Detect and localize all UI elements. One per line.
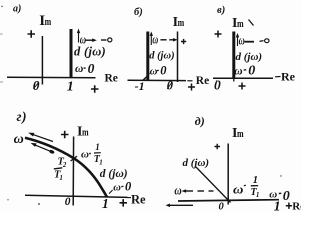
- direction arrow above curve (panel g): [28, 133, 53, 142]
- svg-text:0: 0: [167, 79, 174, 93]
- svg-text:д): д): [195, 114, 205, 128]
- tick label -1 (panel b): [135, 79, 145, 93]
- svg-text:Re: Re: [196, 75, 209, 87]
- Im axis (panel d): [227, 144, 229, 205]
- svg-text:Re: Re: [131, 192, 146, 206]
- slash through 0 (panel b): [167, 82, 172, 89]
- origin label 0 (panel a): [33, 78, 40, 93]
- origin label 0 (panel d): [219, 202, 225, 213]
- plus lower (panel v): [239, 83, 246, 90]
- Re axis (panel b): [128, 79, 187, 81]
- tick label 1 (panel g): [102, 196, 109, 211]
- svg-text:2: 2: [62, 161, 67, 169]
- svg-text:0: 0: [88, 61, 95, 76]
- svg-text:б): б): [134, 7, 143, 18]
- axis label Im (panel a): [39, 13, 51, 29]
- omega with dashed arrow (panel d): [174, 183, 213, 197]
- svg-text:ω: ω: [239, 34, 245, 48]
- svg-text:Re: Re: [105, 73, 118, 85]
- svg-text:ω: ω: [152, 33, 158, 47]
- axis label Im (panel b): [173, 15, 185, 30]
- omega symbol at curve end (panel g): [14, 132, 24, 147]
- direction up-arrow (panel b): [150, 32, 153, 46]
- svg-text:0: 0: [248, 64, 255, 79]
- svg-text:m: m: [237, 128, 244, 141]
- axis end dash (panel v): [275, 76, 281, 78]
- tick at Im-axis crossing (panel g): [71, 156, 77, 161]
- svg-text:ω: ω: [75, 63, 83, 75]
- plus upper-left (panel d): [215, 144, 221, 150]
- tick label 1 (panel d): [274, 200, 281, 215]
- hook at line foot (panel b): [143, 77, 148, 81]
- svg-text:ω: ω: [14, 132, 24, 147]
- svg-text:ω: ω: [81, 149, 89, 161]
- leader to w=0 (panel g): [109, 190, 113, 194]
- plus upper-left (panel v): [215, 31, 222, 38]
- panel a label: [13, 4, 21, 15]
- svg-text:d (jω): d (jω): [236, 51, 263, 63]
- svg-text:1: 1: [99, 159, 103, 167]
- svg-text:ω: ω: [269, 188, 277, 200]
- label d(jw) (panel a): [74, 45, 106, 59]
- label w=1/T1 (panel d): [233, 175, 259, 199]
- hodograph curve (panel g): [25, 138, 107, 198]
- svg-text:0: 0: [214, 78, 221, 93]
- axis label Re (panel b): [196, 75, 209, 87]
- svg-text:а): а): [13, 4, 21, 15]
- label d(jw) (panel g): [100, 168, 128, 180]
- svg-text:г): г): [17, 109, 27, 124]
- axis label Im (panel v): [232, 16, 244, 31]
- svg-text:1: 1: [59, 174, 63, 182]
- speck left of axis (panel g): [38, 203, 40, 205]
- label d(jw) (panel b): [149, 51, 174, 62]
- svg-text:m: m: [82, 126, 89, 139]
- svg-text:d (jω): d (jω): [100, 168, 128, 180]
- omega to infinity label (panel a): [80, 33, 112, 47]
- direction arrow below curve (panel g): [31, 143, 55, 154]
- panel d label: [195, 114, 205, 128]
- axis label Im (panel d): [232, 126, 244, 141]
- panel g label: [17, 109, 27, 124]
- origin label 0 (panel b): [167, 79, 174, 93]
- svg-text:d (jω): d (jω): [74, 45, 106, 59]
- svg-text:m: m: [45, 16, 52, 29]
- svg-text:0: 0: [65, 196, 71, 208]
- svg-text:0: 0: [160, 64, 167, 78]
- plus lower (panel b): [188, 84, 195, 91]
- plus upper (panel b): [181, 39, 186, 44]
- origin label 0 (panel v): [214, 78, 221, 93]
- svg-text:в): в): [217, 5, 225, 16]
- svg-text:1: 1: [253, 175, 258, 186]
- panel b label: [134, 7, 143, 18]
- svg-text:Re: Re: [292, 200, 301, 212]
- Im axis (panel g): [72, 137, 74, 206]
- svg-text:Re: Re: [281, 70, 296, 84]
- svg-text:1: 1: [274, 200, 281, 213]
- svg-text:1: 1: [67, 80, 74, 95]
- label d(jw) (panel v): [236, 51, 263, 63]
- svg-text:1: 1: [95, 142, 100, 152]
- svg-text:0: 0: [219, 202, 225, 213]
- svg-text:1: 1: [256, 191, 260, 199]
- svg-text:d (jω): d (jω): [149, 51, 174, 62]
- svg-text:m: m: [178, 17, 185, 30]
- Im axis (panel b): [177, 32, 179, 83]
- omega to infinity label (panel v): [239, 34, 269, 48]
- axis label Re (panel g): [131, 192, 146, 206]
- plus upper (panel g): [61, 131, 69, 139]
- svg-text:ω: ω: [113, 182, 121, 193]
- direction up-arrow (panel a): [77, 29, 80, 43]
- svg-text:ω: ω: [234, 65, 242, 77]
- Re axis (panel d): [178, 200, 279, 201]
- svg-text:ω: ω: [233, 182, 244, 196]
- svg-text:ω: ω: [150, 66, 158, 77]
- hodograph d(jw) vertical line at Re=-1 (panel b): [146, 32, 149, 81]
- label w=0 (panel b): [150, 64, 168, 78]
- axis label Re (panel v): [281, 70, 296, 84]
- plus lower-right (panel a): [91, 85, 99, 93]
- label T2/T1 fraction (panel g): [54, 157, 67, 183]
- stray diagonal mark (panel v): [249, 20, 254, 26]
- svg-text:0: 0: [283, 189, 290, 204]
- label w=1/T1 (panel g): [81, 142, 103, 167]
- arrow below axis (panel d): [166, 204, 193, 208]
- speck between panels: [216, 80, 217, 81]
- hodograph diagonal line (panel d): [196, 167, 231, 203]
- omega to infinity label (panel b): [152, 33, 177, 47]
- Re axis (panel g): [25, 195, 131, 197]
- axis end dash (panel b): [187, 80, 192, 82]
- tick label 1 (panel a): [67, 80, 74, 95]
- hodograph d(jw) vertical line at Re=1 (panel a): [70, 29, 73, 77]
- panel v label: [217, 5, 225, 16]
- label w=0 (panel a): [75, 61, 95, 76]
- leader line to w=0 (panel b): [145, 73, 150, 79]
- page-edge marks left: [0, 33, 3, 35]
- label w=0 (panel g): [113, 180, 132, 194]
- direction up-arrow (panel v): [236, 33, 239, 46]
- label w=0 bold (panel d): [269, 188, 290, 204]
- hodograph d(jw) line on Im axis (panel v): [232, 32, 235, 80]
- svg-text:ω: ω: [174, 183, 181, 197]
- Re axis (panel a): [7, 76, 96, 79]
- Re axis (panel v): [213, 77, 273, 79]
- speck (panel d): [280, 175, 281, 176]
- svg-text:-1: -1: [135, 79, 145, 93]
- speck top-left: [1, 6, 3, 8]
- label d(jw) (panel d): [183, 157, 210, 169]
- svg-text:1: 1: [102, 196, 109, 211]
- origin label 0 (panel g): [65, 196, 71, 208]
- svg-text:m: m: [237, 18, 244, 31]
- label w=0 (panel v): [234, 64, 255, 79]
- axis overhang below (panel v): [233, 79, 235, 82]
- axis label Im (panel g): [77, 124, 89, 139]
- axis label Re (panel a): [105, 73, 118, 85]
- plus upper-left (panel a): [28, 30, 36, 38]
- plus lower (panel g): [120, 199, 128, 207]
- Im axis (panel a): [41, 36, 43, 85]
- svg-text:0: 0: [125, 180, 132, 194]
- plus and Re (panel d): [286, 203, 292, 209]
